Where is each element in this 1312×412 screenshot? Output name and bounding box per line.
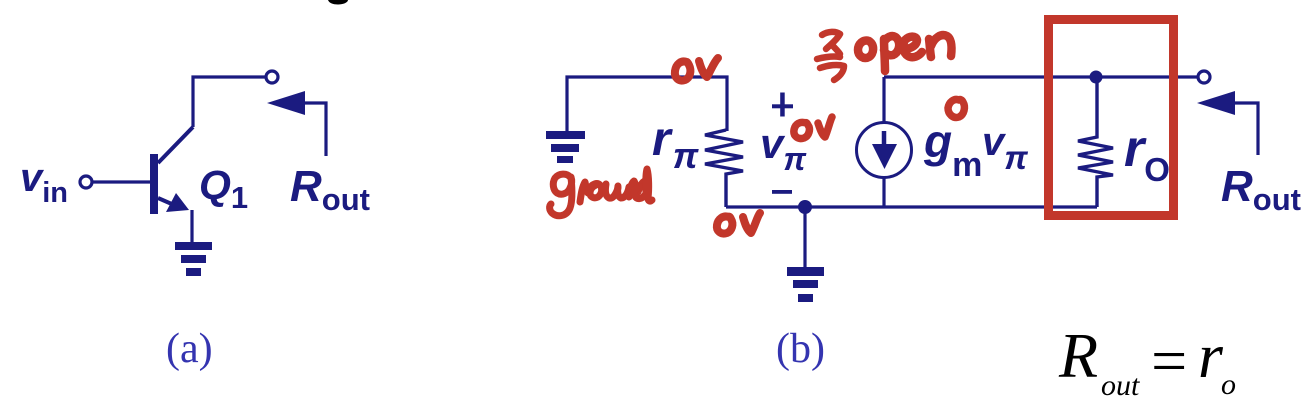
- annotation open: [858, 35, 952, 71]
- wire emitter: [190, 210, 193, 243]
- junction dot top: [1090, 71, 1103, 84]
- Rout probe arrow (b): [1197, 91, 1258, 155]
- cropped title letter fragment: [328, 0, 348, 5]
- svg-text:(a): (a): [166, 326, 213, 372]
- svg-text:=: =: [1147, 325, 1190, 396]
- ground left (b): [546, 131, 585, 163]
- annotation ov top: [675, 58, 718, 81]
- ground (a): [175, 242, 212, 276]
- minus sign: [772, 190, 792, 194]
- svg-text:gm: gm: [923, 115, 982, 184]
- output terminal (b): [1198, 71, 1210, 83]
- annotation ground: [550, 169, 652, 216]
- svg-text:(b): (b): [776, 326, 825, 372]
- svg-text:rπ: rπ: [652, 113, 699, 176]
- svg-text:Rout: Rout: [290, 162, 370, 217]
- annotation approx squiggle: [817, 32, 844, 80]
- wire ground stem: [803, 207, 806, 268]
- current source G1: [857, 77, 912, 207]
- svg-text:o: o: [1221, 368, 1236, 401]
- ground bottom (b): [787, 267, 824, 302]
- output terminal (a): [266, 71, 278, 83]
- transistor Q1: [150, 127, 193, 214]
- wire top-left rail: [567, 77, 727, 131]
- svg-text:out: out: [1101, 369, 1140, 402]
- red highlight box around r_o: [1049, 20, 1174, 216]
- wire base: [93, 180, 150, 183]
- svg-text:vπ: vπ: [760, 120, 807, 177]
- annotation zero: [948, 99, 964, 117]
- plus sign: [772, 93, 793, 117]
- svg-text:vin: vin: [20, 156, 68, 209]
- wire bottom rail: [726, 205, 1097, 208]
- Rout probe arrow (a): [267, 91, 326, 156]
- resistor r_pi: [705, 130, 743, 207]
- wire collector: [193, 77, 266, 127]
- annotation ov mid: [794, 117, 832, 139]
- wire top-right rail: [884, 75, 1198, 78]
- svg-text:Rout: Rout: [1221, 162, 1301, 217]
- svg-text:rO: rO: [1124, 120, 1170, 188]
- svg-text:Q1: Q1: [199, 162, 248, 215]
- equation Rout = r_o: [1058, 320, 1236, 402]
- input terminal: [80, 176, 92, 188]
- svg-text:R: R: [1058, 320, 1098, 391]
- annotation ov bottom-left: [717, 213, 760, 234]
- svg-text:vπ: vπ: [982, 120, 1028, 176]
- resistor r_o: [1078, 77, 1113, 207]
- junction dot bottom: [798, 200, 812, 214]
